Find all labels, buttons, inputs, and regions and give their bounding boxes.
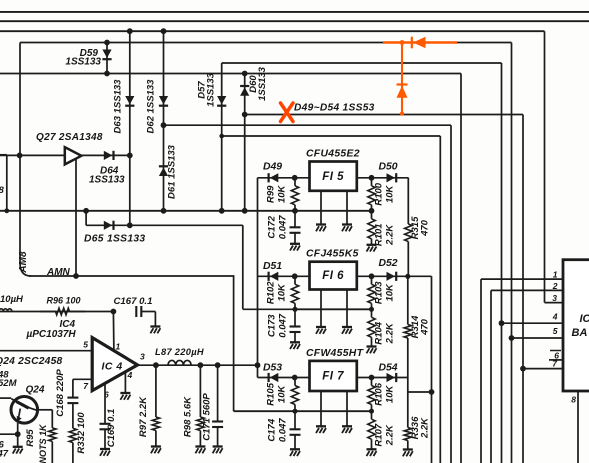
svg-text:5: 5 [553,326,558,336]
svg-text:1SS133: 1SS133 [89,175,125,186]
wire Q24 collector [37,410,53,428]
net label AMN [46,267,71,278]
resistor R100 10K [368,178,396,214]
diode D57 [197,63,227,214]
svg-text:10K: 10K [277,283,288,302]
wire Q27 output to D64 node [81,154,130,156]
svg-text:R98 5.6K: R98 5.6K [183,396,194,437]
svg-text:Q24: Q24 [26,385,45,396]
svg-text:47: 47 [0,449,9,460]
wire FI5 right [357,177,409,179]
diode D54 [369,363,398,383]
resistor R332 100 [69,403,87,463]
junction dots on long line [292,208,374,214]
svg-text:µPC1037H: µPC1037H [26,329,77,340]
svg-text:R95: R95 [25,429,36,447]
svg-text:C174: C174 [267,418,278,441]
svg-text:1: 1 [116,342,121,352]
wire right rail pin5 net [509,43,563,463]
wire D60 cathode line (to IC BA pin 7) [245,114,523,116]
svg-text:0.047: 0.047 [278,418,289,442]
left edge labels [0,185,9,460]
orange diode (up) [397,85,408,116]
svg-text:10K: 10K [277,385,288,404]
svg-text:1SS133: 1SS133 [65,57,101,68]
wire D65 branch line [86,224,243,226]
svg-text:52M: 52M [0,378,18,389]
svg-text:10K: 10K [384,283,395,302]
svg-text:C168 220P: C168 220P [55,369,66,417]
svg-text:4: 4 [552,312,558,322]
svg-text:1: 1 [553,270,558,280]
node left-edge stub with vertical [0,155,9,213]
svg-text:R106: R106 [374,382,385,405]
orange X mark [281,103,294,122]
svg-text:D51: D51 [263,261,282,272]
svg-text:IC 4: IC 4 [102,361,123,373]
svg-text:NOTS 1K: NOTS 1K [38,423,48,463]
svg-text:R332 100: R332 100 [76,412,87,454]
wire D57 lower line (wraps right) [222,135,441,137]
svg-text:10K: 10K [384,184,395,203]
wire right rail pin1 [481,279,563,463]
svg-text:D49~D54 1SS53: D49~D54 1SS53 [294,103,375,114]
svg-text:2: 2 [552,281,558,291]
wire top bus line 2 [0,20,589,22]
resistor R102 10K [266,276,299,312]
svg-text:7: 7 [83,381,89,391]
orange vertical wire [401,43,403,114]
svg-text:2.2K: 2.2K [384,224,395,246]
svg-text:AM8: AM8 [18,251,29,274]
svg-text:R101: R101 [374,223,385,246]
diode D62 [146,28,169,133]
node Q27 input junction [17,153,23,159]
capacitor C167 0.1 [114,296,161,333]
wire IC4 output line L87 node [137,362,260,368]
resistor R336 2.2K [403,392,431,456]
svg-text:5: 5 [83,340,88,350]
op-amp IC4 uPC1037H [26,319,146,400]
IC BA (bottom right) [552,260,589,405]
svg-text:C172: C172 [267,215,278,238]
svg-text:R99: R99 [266,185,277,203]
svg-text:CFJ455K5: CFJ455K5 [306,249,359,260]
svg-text:10µH: 10µH [0,294,24,305]
svg-text:1SS133: 1SS133 [257,66,268,101]
wire AM8 vertical [19,43,21,265]
wire right rail a [439,136,441,463]
svg-text:C171 560P: C171 560P [202,393,213,441]
svg-text:R105: R105 [266,382,277,405]
svg-text:D62 1SS133: D62 1SS133 [146,79,157,134]
svg-text:R104: R104 [374,321,385,344]
resistor R105 10K [266,378,299,414]
ground legs of FI7 [316,391,352,433]
svg-text:FI 6: FI 6 [322,270,344,282]
wire D59 feed line (to IC BA pin 5) [20,42,512,44]
capacitor C174 0.047 [267,411,301,456]
resistor R99 10K [266,178,299,214]
resistor R95 1K [25,423,56,463]
svg-text:0.047: 0.047 [278,313,289,337]
filter FI5 (CFU455E2) [306,149,360,191]
wire FI6 right [357,275,432,277]
svg-text:D65 1SS133: D65 1SS133 [84,234,145,245]
wire Q24 emitter line [0,423,21,447]
svg-text:0.047: 0.047 [278,215,289,239]
resistor R103 10K [368,276,396,312]
wire filter left rail (D49/D51/D53) [257,178,259,378]
wire pin6 stub [549,351,563,360]
svg-text:AMN: AMN [46,267,71,278]
svg-text:4: 4 [127,370,133,380]
capacitor C173 0.047 [267,309,301,349]
svg-text:C173: C173 [267,314,278,337]
wire Q24 base line [0,397,11,399]
resistor R96 100 [40,296,85,315]
diode D52 [369,258,398,281]
resistor R101 2.2K [367,211,396,252]
svg-text:R107: R107 [374,423,385,446]
Q24 emitter ground [13,447,23,454]
svg-text:470: 470 [420,318,431,336]
resistor R107 2.2K [367,411,396,456]
diode D59 [65,40,111,77]
wire D57 top line (to IC BA pin 4) [222,62,502,64]
wire right rail b [450,125,452,463]
wire C167 junction to pin 1 [111,309,117,352]
svg-text:10K: 10K [277,184,288,203]
wire right rail pin7 net [520,115,563,463]
svg-text:D50: D50 [379,162,398,173]
svg-text:D52: D52 [379,258,398,269]
filter FI7 (CFW455HT) [306,348,365,391]
svg-text:D53: D53 [263,363,282,374]
resistor R98 5.6K [183,362,206,453]
svg-text:8: 8 [571,395,576,405]
svg-text:R102: R102 [266,281,277,304]
ground legs of FI6 [316,290,352,334]
svg-text:L87 220µH: L87 220µH [155,347,204,357]
wire FI7 junction line [234,410,372,412]
svg-text:2.2K: 2.2K [384,424,395,446]
capacitor C169 0.1 [100,384,118,456]
wire FI7 left [258,377,310,379]
resistor R104 2.2K [367,309,396,353]
diode D50 [369,162,398,183]
svg-text:FI 5: FI 5 [322,171,344,183]
wire long AM detector line [0,210,372,212]
wire IC4 pin5 input line [0,350,92,352]
capacitor C172 0.047 [267,211,301,251]
svg-text:D54: D54 [379,363,398,374]
resistor R314 470 [404,276,430,377]
diode D63 [113,28,135,155]
wire D59 cathode line (wraps right) [0,73,461,75]
diode D49 [263,162,298,183]
wire D52 output rail [429,276,435,463]
wire AMN drop to FI7 junction line [233,276,235,411]
IC4 pin4 ground [120,372,130,400]
svg-text:D49: D49 [263,162,282,173]
svg-text:Q27 2SA1348: Q27 2SA1348 [36,132,103,143]
svg-text:R96 100: R96 100 [47,296,81,306]
svg-text:D63 1SS133: D63 1SS133 [113,79,124,134]
wire IC pin 8 [577,391,579,463]
svg-text:D61 1SS133: D61 1SS133 [167,144,178,199]
resistor R106 10K [368,378,396,414]
svg-text:1SS133: 1SS133 [206,72,217,107]
svg-text:3: 3 [140,352,145,362]
diode D65 [83,208,145,245]
wire FI6 left [258,275,310,277]
transistor Q27 (amp stage) [36,132,103,164]
wire Q27 bottom pin to AMN [73,160,79,279]
svg-text:R103: R103 [374,281,385,304]
wire D63/D64 node to D65 [127,153,133,229]
svg-text:470: 470 [420,219,431,237]
resistor R315 470 [405,178,431,279]
svg-text:BA: BA [572,327,588,339]
svg-text:2.2K: 2.2K [384,322,395,344]
wire Q27 input line [0,154,65,156]
wire D62/D61 mid line (wraps right) [164,124,452,126]
label D49~D54 1SS53 [294,103,375,114]
diode D53 [263,363,298,383]
inductor 10uH [0,294,24,312]
svg-text:10K: 10K [384,385,395,404]
svg-text:C167 0.1: C167 0.1 [114,296,153,307]
svg-text:CFW455HT: CFW455HT [306,348,365,359]
inductor L87 220uH [155,347,204,365]
orange jumper wire [383,40,457,45]
diode D64 [89,151,125,186]
svg-text:R100: R100 [374,182,385,205]
wire D65 drop to FI6 junction line [243,225,295,309]
capacitor C171 560P [202,362,224,453]
wire IC4 pin7 line [73,378,92,380]
wire right rail c [460,74,462,463]
wire pin3 net vertical [545,31,564,302]
wire R96/C167 line [0,311,113,313]
wire AMN line [20,263,234,276]
capacitor C168 220P [55,369,78,417]
svg-text:Q24 2SC2458: Q24 2SC2458 [0,356,63,367]
wire D54 node to rail [408,378,432,393]
diode D61 [159,125,178,214]
svg-text:CFU455E2: CFU455E2 [306,149,360,160]
svg-text:2.2K: 2.2K [420,417,431,439]
svg-text:FI 7: FI 7 [322,371,344,383]
orange diode (left) [412,37,426,49]
wire top bus line 3 (to IC BA pin 3) [0,30,545,32]
wire FI6 junction line [295,308,372,310]
svg-text:8: 8 [0,185,5,196]
diode D51 [263,261,298,281]
ground legs of FI5 [316,191,352,232]
svg-text:IC: IC [580,313,589,325]
wire right rail pin2 [491,290,563,463]
wire FI5 left [258,177,310,179]
transistor Q24 2SC2458 [0,356,63,423]
wire FI7 right [357,377,408,379]
wire right rail pin4 net [499,63,563,463]
net label AM8 [18,251,29,274]
resistor R97 2.2K [138,362,161,453]
wire top bus line 1 [0,11,589,13]
filter FI6 (CFJ455K5) [306,249,359,290]
svg-text:R97 2.2K: R97 2.2K [138,396,149,437]
svg-text:3: 3 [552,293,557,303]
diode D60 [240,66,268,213]
svg-text:C169 0.1: C169 0.1 [106,409,117,448]
